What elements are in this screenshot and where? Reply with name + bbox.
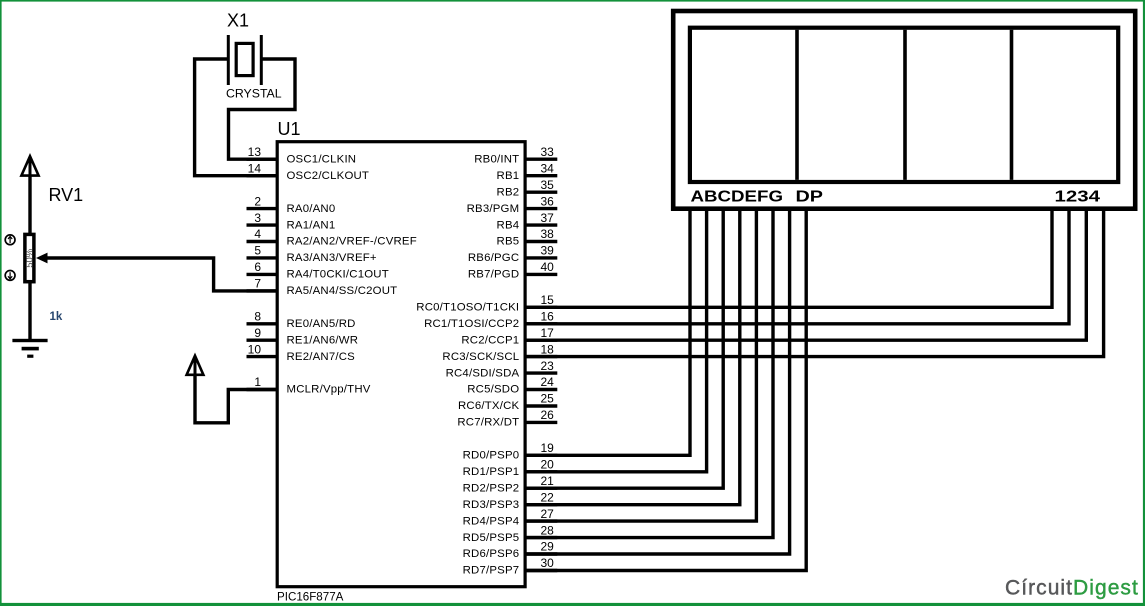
pin 3 RA1/AN1 [247, 211, 336, 232]
svg-text:10: 10 [248, 342, 262, 356]
svg-text:RC7/RX/DT: RC7/RX/DT [457, 417, 519, 429]
pin 2 RA0/AN0 [247, 194, 336, 215]
svg-text:6: 6 [254, 260, 261, 274]
svg-text:25: 25 [541, 392, 555, 406]
svg-text:X1: X1 [227, 10, 249, 30]
svg-text:14: 14 [248, 161, 262, 175]
svg-text:RD1/PSP1: RD1/PSP1 [463, 466, 520, 478]
wire RC1 to display digit 2 pin [525, 207, 1069, 324]
display digit divider 3 [1010, 30, 1014, 180]
wire RD7 to display segment DP pin [525, 207, 806, 571]
svg-text:18: 18 [541, 342, 555, 356]
pin 20 RD1/PSP1 [463, 458, 558, 479]
pin 16 RC1/T1OSI/CCP2 [424, 310, 557, 331]
svg-text:1: 1 [254, 375, 261, 389]
pin 24 RC5/SDO [467, 375, 557, 396]
wire RD1 to display segment B pin [525, 207, 707, 472]
svg-text:24: 24 [541, 375, 555, 389]
svg-text:RB3/PGM: RB3/PGM [467, 203, 520, 215]
svg-text:RA3/AN3/VREF+: RA3/AN3/VREF+ [287, 252, 377, 264]
svg-text:34: 34 [541, 161, 555, 175]
svg-text:U1: U1 [278, 119, 301, 139]
svg-text:29: 29 [541, 540, 555, 554]
wire X1 right plate to OSC1/CLKIN pin 13 [229, 59, 296, 159]
svg-text:RA4/T0CKI/C1OUT: RA4/T0CKI/C1OUT [287, 269, 389, 281]
pin 7 RA5/AN4/SS/C2OUT [247, 277, 398, 298]
svg-text:40: 40 [541, 260, 555, 274]
svg-text:33: 33 [541, 145, 555, 159]
wire RD4 to display segment E pin [525, 207, 756, 521]
pin 34 RB1 [497, 161, 558, 182]
wire power arrow to MCLR pin 1 [195, 374, 277, 423]
svg-text:20: 20 [541, 458, 555, 472]
svg-text:30: 30 [541, 556, 555, 570]
crystal X1 [228, 35, 261, 85]
pin 23 RC4/SDI/SDA [446, 359, 558, 380]
svg-text:17: 17 [541, 326, 555, 340]
pin 25 RC6/TX/CK [458, 392, 557, 413]
svg-text:RB4: RB4 [497, 219, 520, 231]
svg-text:RD4/PSP4: RD4/PSP4 [463, 515, 520, 527]
svg-text:RB1: RB1 [497, 170, 520, 182]
display digit divider 1 [795, 30, 799, 180]
svg-text:RC3/SCK/SCL: RC3/SCK/SCL [442, 351, 519, 363]
svg-text:19: 19 [541, 441, 555, 455]
pin 14 OSC2/CLKOUT [247, 161, 370, 182]
svg-text:ABCDEFG: ABCDEFG [691, 188, 784, 205]
pin 28 RD5/PSP5 [463, 523, 558, 544]
svg-text:RB2: RB2 [497, 186, 520, 198]
pin 6 RA4/T0CKI/C1OUT [247, 260, 389, 281]
svg-text:OSC1/CLKIN: OSC1/CLKIN [287, 153, 357, 165]
wire RC3 to display digit 4 pin [525, 207, 1104, 357]
pin 13 OSC1/CLKIN [247, 145, 357, 166]
wire RD5 to display segment F pin [525, 207, 773, 538]
svg-text:37: 37 [541, 211, 555, 225]
svg-text:21: 21 [541, 474, 555, 488]
svg-text:1k: 1k [50, 311, 63, 323]
svg-text:RD7/PSP7: RD7/PSP7 [463, 565, 520, 577]
pin 8 RE0/AN5/RD [247, 310, 356, 331]
svg-text:22: 22 [541, 490, 555, 504]
svg-text:RB0/INT: RB0/INT [474, 153, 519, 165]
svg-text:RE0/AN5/RD: RE0/AN5/RD [287, 318, 356, 330]
svg-text:13: 13 [248, 145, 262, 159]
pin 10 RE2/AN7/CS [247, 342, 356, 363]
pin 19 RD0/PSP0 [463, 441, 558, 462]
svg-text:9: 9 [254, 326, 261, 340]
pin 35 RB2 [497, 178, 558, 199]
pin 5 RA3/AN3/VREF+ [247, 244, 377, 265]
svg-text:RE2/AN7/CS: RE2/AN7/CS [287, 351, 356, 363]
pin 39 RB6/PGC [468, 244, 557, 265]
svg-text:28: 28 [541, 523, 555, 537]
wire RD0 to display segment A pin [525, 207, 690, 455]
svg-text:OSC2/CLKOUT: OSC2/CLKOUT [287, 170, 370, 182]
pin 30 RD7/PSP7 [463, 556, 558, 577]
pin 40 RB7/PGD [468, 260, 557, 281]
svg-text:RA2/AN2/VREF-/CVREF: RA2/AN2/VREF-/CVREF [287, 236, 417, 248]
svg-text:39: 39 [541, 244, 555, 258]
pin 26 RC7/RX/DT [457, 408, 557, 429]
wire RD6 to display segment G pin [525, 207, 790, 554]
svg-text:RC5/SDO: RC5/SDO [467, 384, 519, 396]
adjust up indicator [5, 235, 15, 245]
svg-text:2: 2 [254, 194, 261, 208]
svg-text:16: 16 [541, 310, 555, 324]
svg-text:RD0/PSP0: RD0/PSP0 [463, 450, 520, 462]
svg-text:RB5: RB5 [497, 236, 520, 248]
svg-text:RA1/AN1: RA1/AN1 [287, 219, 336, 231]
svg-text:RC2/CCP1: RC2/CCP1 [461, 334, 519, 346]
svg-text:26: 26 [541, 408, 555, 422]
svg-text:DP: DP [796, 188, 824, 205]
svg-text:36: 36 [541, 194, 555, 208]
pin 37 RB4 [497, 211, 558, 232]
wire RD2 to display segment C pin [525, 207, 723, 488]
wire RV1 bottom to ground [28, 281, 31, 341]
adjust down indicator [5, 271, 15, 281]
display inner window [690, 28, 1118, 182]
pin 36 RB3/PGM [467, 194, 558, 215]
svg-text:RD5/PSP5: RD5/PSP5 [463, 532, 520, 544]
svg-text:RD3/PSP3: RD3/PSP3 [463, 499, 520, 511]
display digit divider 2 [903, 30, 907, 180]
svg-text:RC4/SDI/SDA: RC4/SDI/SDA [446, 367, 520, 379]
pin 21 RD2/PSP2 [463, 474, 558, 495]
svg-text:RA5/AN4/SS/C2OUT: RA5/AN4/SS/C2OUT [287, 285, 398, 297]
svg-text:50%: 50% [25, 248, 36, 268]
pin 18 RC3/SCK/SCL [442, 342, 557, 363]
svg-text:RB7/PGD: RB7/PGD [468, 269, 519, 281]
svg-text:RC0/T1OSO/T1CKI: RC0/T1OSO/T1CKI [416, 302, 519, 314]
ic U1 PIC16F877A body [277, 142, 525, 587]
svg-text:7: 7 [254, 277, 261, 291]
svg-text:15: 15 [541, 293, 555, 307]
wire RC2 to display digit 3 pin [525, 207, 1086, 340]
pin 9 RE1/AN6/WR [247, 326, 359, 347]
wire X1 left plate to OSC2/CLKOUT pin 14 [195, 59, 278, 176]
pin 22 RD3/PSP3 [463, 490, 558, 511]
svg-text:3: 3 [254, 211, 261, 225]
wire power arrow to RV1 top [28, 175, 31, 234]
svg-text:4: 4 [254, 227, 261, 241]
svg-text:23: 23 [541, 359, 555, 373]
svg-text:CRYSTAL: CRYSTAL [226, 87, 282, 101]
svg-text:RC6/TX/CK: RC6/TX/CK [458, 400, 519, 412]
power arrow at MCLR [187, 356, 204, 375]
pin 4 RA2/AN2/VREF-/CVREF [247, 227, 417, 248]
pin 17 RC2/CCP1 [461, 326, 557, 347]
svg-text:27: 27 [541, 507, 555, 521]
pin 27 RD4/PSP4 [463, 507, 558, 528]
wire RV1 wiper to RA5 pin 7 [45, 258, 277, 291]
svg-text:RB6/PGC: RB6/PGC [468, 252, 519, 264]
svg-text:RE1/AN6/WR: RE1/AN6/WR [287, 334, 359, 346]
wire RD3 to display segment D pin [525, 207, 740, 505]
wire RC0 to display digit 1 pin [525, 207, 1052, 307]
power arrow above RV1 [21, 156, 38, 176]
pin 38 RB5 [497, 227, 558, 248]
svg-text:35: 35 [541, 178, 555, 192]
svg-text:MCLR/Vpp/THV: MCLR/Vpp/THV [287, 384, 371, 396]
svg-text:RA0/AN0: RA0/AN0 [287, 203, 336, 215]
svg-text:RC1/T1OSI/CCP2: RC1/T1OSI/CCP2 [424, 318, 519, 330]
svg-text:RV1: RV1 [49, 185, 84, 205]
pin 33 RB0/INT [474, 145, 557, 166]
pin 29 RD6/PSP6 [463, 540, 558, 561]
svg-text:PIC16F877A: PIC16F877A [277, 591, 344, 604]
svg-text:8: 8 [254, 310, 261, 324]
svg-text:5: 5 [254, 244, 261, 258]
svg-text:38: 38 [541, 227, 555, 241]
svg-text:1234: 1234 [1055, 188, 1101, 205]
svg-text:CírcuitDigest: CírcuitDigest [1005, 577, 1139, 600]
svg-text:RD2/PSP2: RD2/PSP2 [463, 482, 520, 494]
pin 15 RC0/T1OSO/T1CKI [416, 293, 557, 314]
potentiometer RV1 [25, 234, 48, 281]
ground [12, 339, 47, 358]
svg-text:RD6/PSP6: RD6/PSP6 [463, 548, 520, 560]
7-segment 4-digit display body [673, 11, 1135, 209]
pin 1 MCLR/Vpp/THV [247, 375, 371, 396]
